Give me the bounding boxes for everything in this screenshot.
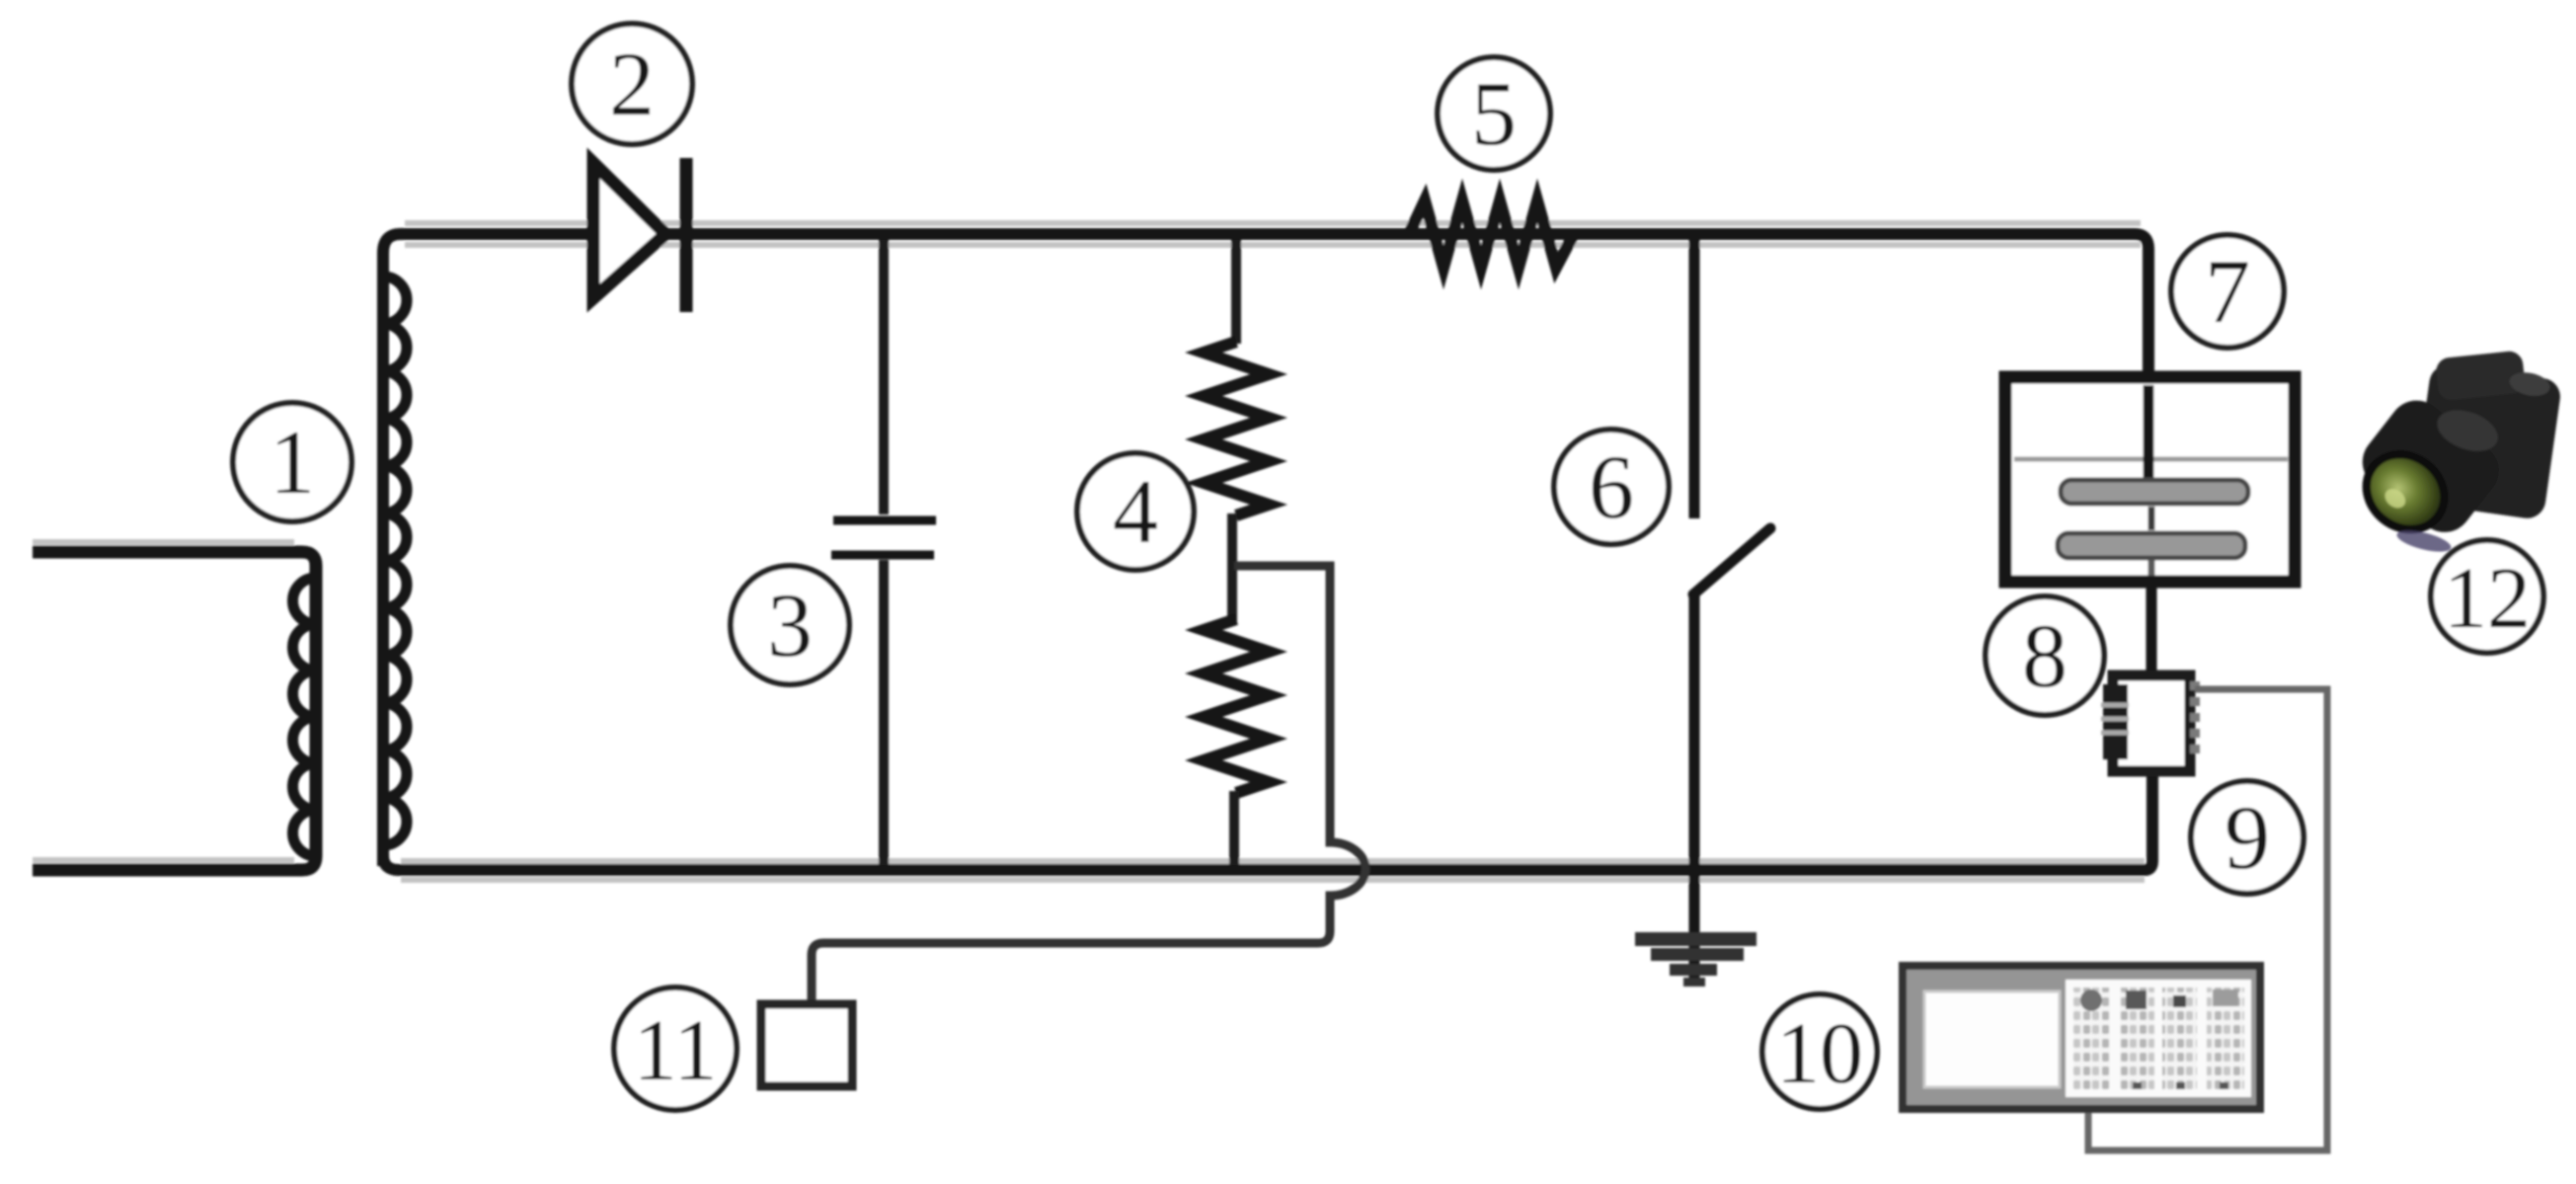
oscilloscope knob <box>2080 989 2102 1011</box>
svg-text:11: 11 <box>634 1003 718 1099</box>
label circle 5 <box>1438 57 1550 170</box>
oscilloscope button strips <box>2073 987 2244 1089</box>
label circle 8 <box>1986 596 2104 715</box>
svg-text:9: 9 <box>2225 787 2270 888</box>
oscilloscope control panel <box>2066 980 2251 1097</box>
diode D (2) cathode bar <box>680 158 693 312</box>
electrode lower plate <box>2058 533 2245 558</box>
sensor box (11) <box>761 1004 852 1086</box>
wire: electrode gap stub <box>2148 507 2155 530</box>
svg-text:8: 8 <box>2022 605 2068 706</box>
wire: bottom bus <box>383 769 2152 870</box>
svg-text:3: 3 <box>767 575 813 675</box>
capacitor C (3) top plate <box>833 516 936 525</box>
resistor upper of divider (4) <box>1204 342 1269 515</box>
camera (12) photo <box>2351 350 2562 556</box>
oscilloscope dark key 2 <box>2173 995 2186 1007</box>
current transformer (8) right winding <box>2190 681 2200 758</box>
wire: secondary spine + top bus + right drop to cell <box>383 234 2148 866</box>
label circle 11 <box>614 987 737 1110</box>
wire: feed inside cell to upper electrode <box>2144 385 2154 486</box>
label circle 9 <box>2191 781 2303 894</box>
transformer T1 primary winding bumps <box>292 578 316 856</box>
wire: switch lower lead to ground <box>1689 592 1700 984</box>
label circle 12 <box>2431 540 2543 653</box>
wire halo top bus <box>33 223 2145 880</box>
wire: capacitor bottom lead <box>879 560 889 865</box>
electrode upper plate <box>2061 480 2248 504</box>
label circle 6 <box>1554 430 1669 544</box>
wire: capacitor top lead <box>879 240 889 514</box>
oscilloscope bottom ticks <box>2133 1082 2228 1089</box>
svg-text:6: 6 <box>1589 436 1634 537</box>
resistor R (5) horizontal <box>1409 200 1574 268</box>
resistor lower of divider (4) <box>1204 619 1269 793</box>
test cell liquid level line <box>2014 457 2288 462</box>
svg-text:2: 2 <box>609 34 655 134</box>
oscilloscope (10) case <box>1903 966 2260 1109</box>
label circle 1 <box>233 403 351 521</box>
label circle 4 <box>1077 453 1194 570</box>
signal cable (9) to oscilloscope <box>2088 689 2327 1150</box>
label circle 2 <box>572 24 692 144</box>
oscilloscope grey key <box>2213 989 2238 1006</box>
svg-text:1: 1 <box>270 412 315 513</box>
switch (6) upper contact <box>1689 240 1700 518</box>
svg-text:5: 5 <box>1471 63 1517 164</box>
wire: divider middle link <box>1227 513 1237 621</box>
svg-text:4: 4 <box>1113 461 1158 562</box>
diode D (2) body <box>593 163 665 298</box>
ground symbol <box>1635 932 1756 987</box>
wire: primary input leads + primary spine <box>33 552 316 870</box>
svg-text:10: 10 <box>1776 1006 1863 1102</box>
oscilloscope dark key 1 <box>2126 990 2147 1009</box>
wire: divider bottom lead <box>1229 791 1239 865</box>
switch (6) blade <box>1693 528 1770 594</box>
current transformer (8) body <box>2113 675 2190 771</box>
wire: divider top lead <box>1231 240 1241 344</box>
wire: cell bottom lead <box>2147 582 2157 677</box>
capacitor C (3) bottom plate <box>831 551 934 560</box>
transformer T1 secondary winding bumps <box>383 276 407 845</box>
label circle 3 <box>731 566 849 684</box>
test cell (7) tank <box>2005 377 2295 582</box>
svg-text:7: 7 <box>2205 241 2250 342</box>
current transformer (8) left winding <box>2103 684 2128 759</box>
svg-text:12: 12 <box>2444 551 2531 647</box>
oscilloscope screen <box>1924 991 2060 1087</box>
label circle 10 <box>1762 994 1877 1109</box>
wire: lower electrode stub <box>2148 560 2155 576</box>
label circle 7 <box>2171 235 2284 348</box>
wire: divider tap to pickup, with hop over bottom bus <box>812 566 1366 1005</box>
